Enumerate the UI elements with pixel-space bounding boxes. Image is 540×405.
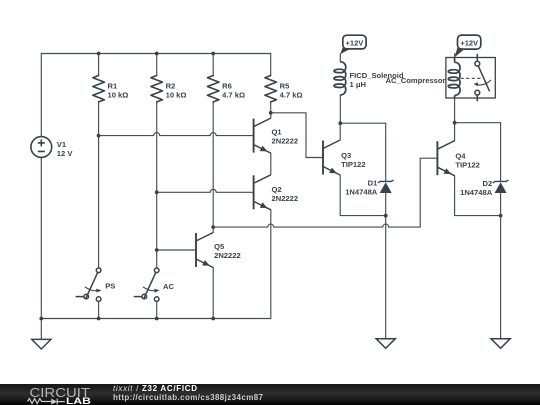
wire Q3 collector lead: [339, 123, 341, 140]
svg-text:10 kΩ: 10 kΩ: [108, 91, 129, 100]
wire R5 top lead: [270, 54, 272, 76]
svg-text:12 V: 12 V: [57, 149, 74, 158]
node dots: [39, 52, 502, 321]
node R6 bus D: [211, 225, 215, 229]
node Q5 base: [155, 248, 159, 252]
wire top bus: [41, 53, 270, 55]
svg-text:D1: D1: [368, 178, 378, 187]
wire inductor to Q3 node: [339, 95, 341, 123]
resistor R6: [207, 76, 219, 102]
svg-text:+12V: +12V: [460, 38, 478, 47]
svg-text:AC: AC: [163, 282, 174, 291]
node R5 Q1 collector: [269, 111, 273, 115]
wire Q4 collector lead: [454, 123, 456, 141]
wire R5 bottom lead: [270, 102, 272, 113]
logo CircuitLab: [28, 385, 92, 405]
footer bar: [0, 384, 540, 405]
wire Q1 emitter to Q2 collector: [270, 153, 272, 175]
wire Q3 node to D1 top: [340, 123, 386, 180]
wire relay coil to Q4 node: [454, 98, 456, 123]
transistor Q3: [323, 140, 340, 175]
svg-text:R2: R2: [166, 82, 176, 91]
svg-text:1N4748A: 1N4748A: [345, 188, 378, 197]
svg-text:Q3: Q3: [341, 151, 351, 160]
svg-text:2N2222: 2N2222: [272, 137, 299, 146]
wire Q4 emitter down: [455, 176, 501, 216]
wire R2 top lead: [156, 54, 158, 76]
transistor Q1: [254, 118, 271, 153]
svg-text:10 kΩ: 10 kΩ: [166, 91, 187, 100]
resistor R5: [265, 76, 277, 102]
svg-text:R5: R5: [280, 82, 290, 91]
svg-text:Q2: Q2: [272, 185, 282, 194]
svg-text:http://circuitlab.com/cs388jz3: http://circuitlab.com/cs388jz34cm87: [113, 393, 264, 402]
svg-text:1 μH: 1 μH: [350, 80, 366, 89]
wire Q3 emitter down: [340, 175, 386, 216]
wire bus node D to Q4 base with hops: [213, 158, 437, 227]
resistor R2: [151, 76, 163, 102]
node top bus R6: [211, 52, 215, 56]
svg-text:1N4748A: 1N4748A: [460, 188, 493, 197]
node R1 bus B: [97, 134, 101, 138]
node R2 bus C: [155, 190, 159, 194]
ground left: [32, 339, 51, 349]
svg-text:TIP122: TIP122: [341, 160, 365, 169]
svg-text:LAB: LAB: [66, 396, 91, 405]
wire R6 bottom lead: [212, 102, 214, 227]
node Q4 collector: [453, 121, 457, 125]
wire R5 node to Q3 base: [271, 113, 324, 158]
wire Q4 node to D2 top: [455, 123, 501, 181]
wire ground stem left: [40, 319, 42, 340]
svg-text:2N2222: 2N2222: [214, 251, 241, 260]
voltage source V1: [31, 137, 52, 158]
wire R1 bottom to switch PS: [98, 102, 100, 268]
switch PS: [76, 268, 102, 301]
power flag +12V right: [455, 35, 481, 57]
wire D1 bottom to ground: [385, 193, 387, 339]
node top bus R1: [97, 52, 101, 56]
inductor FICD_Solenoid: [334, 62, 346, 95]
wire flag1 to inductor: [339, 54, 341, 62]
wire Q5 emitter to bottom bus: [212, 268, 214, 319]
wire V1 bottom lead: [40, 157, 42, 318]
svg-text:+12V: +12V: [346, 38, 364, 47]
svg-text:tixxit / Z32 AC/FICD: tixxit / Z32 AC/FICD: [113, 384, 197, 393]
ground D1: [376, 339, 395, 349]
svg-text:V1: V1: [57, 140, 67, 149]
wire R6 top lead: [212, 54, 214, 76]
wire R2 bottom to switch AC: [156, 102, 158, 268]
wire flag2 stub: [454, 54, 456, 58]
svg-text:TIP122: TIP122: [455, 161, 479, 170]
wire V1 top lead: [40, 54, 42, 137]
svg-text:Q1: Q1: [272, 128, 283, 137]
zener diode D2: [493, 180, 509, 193]
svg-text:D2: D2: [482, 179, 492, 188]
relay AC_Compressor: [446, 54, 495, 102]
wire PS bottom lead: [98, 301, 100, 318]
node D2 anode: [499, 214, 503, 218]
power flag +12V left: [340, 35, 366, 54]
node bottom bus PS: [97, 317, 101, 321]
wire Q2 emitter to bottom bus: [270, 210, 272, 319]
wire AC bottom lead: [156, 301, 158, 318]
wire bottom bus: [41, 318, 270, 320]
svg-text:AC_Compressor: AC_Compressor: [386, 76, 446, 85]
node bottom bus Q5: [211, 317, 215, 321]
zener diode D1: [378, 180, 394, 193]
resistor R1: [93, 76, 105, 102]
transistor Q4: [437, 141, 454, 176]
node top bus R2: [155, 52, 159, 56]
svg-text:2N2222: 2N2222: [272, 194, 299, 203]
transistor Q5: [196, 233, 213, 268]
wire Q1 collector lead: [270, 113, 272, 118]
svg-text:Q4: Q4: [455, 152, 466, 161]
switch AC: [134, 268, 160, 301]
footer attribution text: [113, 384, 264, 402]
wire Q5 collector lead: [212, 227, 214, 232]
ground D2: [491, 339, 510, 349]
node bottom bus AC: [155, 317, 159, 321]
node D1 anode: [384, 214, 388, 218]
wire Q5 base feed: [157, 249, 197, 251]
transistor Q2: [254, 175, 271, 210]
svg-text:R6: R6: [222, 82, 232, 91]
wire D2 bottom to ground: [500, 193, 502, 339]
svg-text:Q5: Q5: [214, 242, 225, 251]
svg-text:4.7 kΩ: 4.7 kΩ: [280, 91, 303, 100]
wire R1 top lead: [98, 54, 100, 76]
wire bus node C to Q2 base with hop: [157, 189, 254, 192]
node bottom bus V1: [39, 317, 43, 321]
node Q3 collector: [338, 121, 342, 125]
svg-text:PS: PS: [105, 282, 115, 291]
svg-text:R1: R1: [108, 82, 118, 91]
svg-text:4.7 kΩ: 4.7 kΩ: [222, 91, 245, 100]
wire bus node B to Q1 base with hops: [99, 133, 254, 136]
